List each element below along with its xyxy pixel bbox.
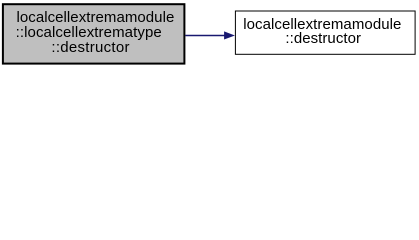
wire: call edge shaft [185, 35, 226, 37]
arrowhead of call edge [224, 31, 235, 39]
label: callee line 2 "::destructor" [285, 31, 361, 46]
label: caller line 3 "::destructor" [51, 40, 129, 55]
label: caller line 1 "localcellextremamodule" [17, 10, 175, 25]
label: callee line 1 "localcellextremamodule" [243, 17, 401, 32]
node box: current function (grey, thick border) [3, 4, 185, 63]
label: caller line 2 "::localcellextrematype" [16, 25, 162, 40]
node box: called function (white, thin border) [235, 11, 415, 54]
